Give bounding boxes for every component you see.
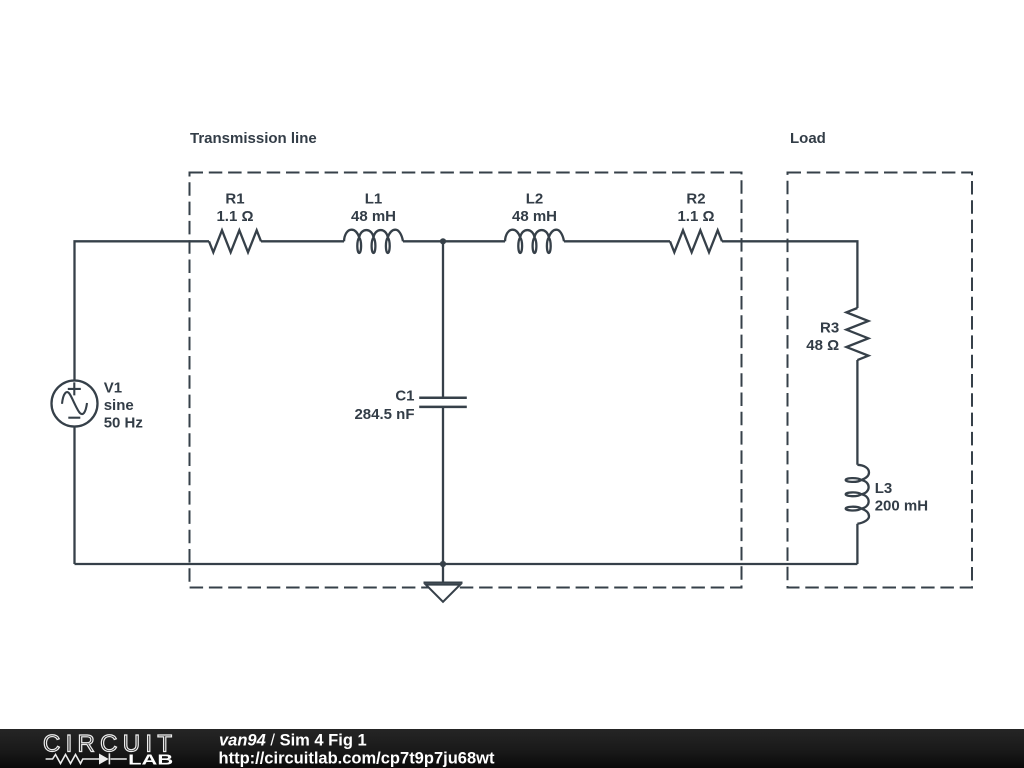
inductor L3 (846, 465, 869, 524)
svg-text:R1: R1 (225, 191, 244, 208)
svg-text:van94 / Sim 4 Fig 1: van94 / Sim 4 Fig 1 (219, 732, 367, 750)
transmission line dashed box (190, 173, 742, 588)
svg-text:R2: R2 (686, 191, 705, 208)
svg-text:48 mH: 48 mH (512, 208, 557, 225)
wire R1 to L1 (261, 240, 344, 242)
node A junction dot (440, 238, 446, 244)
svg-text:L2: L2 (526, 191, 544, 208)
svg-text:Load: Load (790, 130, 826, 147)
inductor L2 (505, 230, 564, 253)
svg-text:L3: L3 (875, 480, 893, 497)
wire R2 to R3 (722, 241, 857, 308)
svg-text:Transmission line: Transmission line (190, 130, 317, 147)
CircuitLab logo resistor-diode glyph (46, 753, 127, 764)
wire V1 bottom (73, 427, 75, 564)
wire R3 to L3 (856, 360, 858, 465)
svg-text:L1: L1 (365, 191, 383, 208)
capacitor C1 (419, 398, 467, 407)
wire L3 to bottom rail (856, 524, 858, 564)
svg-text:V1: V1 (104, 380, 122, 397)
svg-text:1.1 Ω: 1.1 Ω (677, 208, 714, 225)
wire node A to L2 (443, 240, 505, 242)
bottom rail wire (75, 563, 858, 565)
node B junction dot (440, 561, 446, 567)
svg-text:LAB: LAB (128, 751, 173, 768)
ground (424, 581, 463, 583)
svg-text:48 mH: 48 mH (351, 208, 396, 225)
svg-text:1.1 Ω: 1.1 Ω (216, 208, 253, 225)
wire L1 to node A (403, 240, 443, 242)
wire C1 to node B (442, 407, 444, 564)
wire V1 top to R1 (75, 241, 210, 380)
svg-text:sine: sine (104, 397, 134, 414)
wire node A to C1 (442, 241, 444, 397)
ground stem wire (442, 564, 444, 583)
wire L2 to R2 (564, 240, 670, 242)
load dashed box (788, 173, 973, 588)
svg-text:200 mH: 200 mH (875, 498, 928, 515)
svg-text:R3: R3 (820, 320, 839, 337)
svg-text:284.5 nF: 284.5 nF (354, 406, 414, 423)
svg-text:50 Hz: 50 Hz (104, 415, 143, 432)
resistor R2 (670, 230, 722, 252)
svg-text:48 Ω: 48 Ω (806, 337, 839, 354)
svg-text:http://circuitlab.com/cp7t9p7j: http://circuitlab.com/cp7t9p7ju68wt (219, 750, 495, 768)
svg-text:C1: C1 (395, 388, 414, 405)
inductor L1 (344, 230, 403, 253)
voltage source V1 (52, 381, 98, 427)
resistor R1 (209, 230, 261, 252)
resistor R3 (846, 308, 868, 360)
